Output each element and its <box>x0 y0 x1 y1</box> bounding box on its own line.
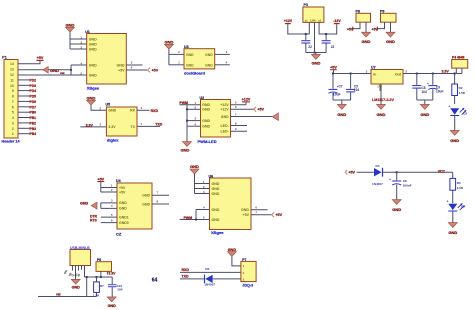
op-amp U4 <box>116 179 152 237</box>
svg-text:GND: GND <box>66 22 75 27</box>
svg-text:RXD: RXD <box>151 109 159 113</box>
LED D4 <box>447 200 466 223</box>
svg-text:PWM: PWM <box>184 216 193 220</box>
svg-text:PWM-LED: PWM-LED <box>198 139 217 144</box>
capacitor C6 <box>389 172 412 199</box>
node TXD at U5 <box>137 122 163 126</box>
svg-text:x2: x2 <box>318 18 322 22</box>
svg-text:3.3V: 3.3V <box>108 125 116 129</box>
svg-text:+: + <box>389 178 391 182</box>
ground above P7 <box>227 248 241 266</box>
svg-text:GND: GND <box>202 103 210 107</box>
svg-text:+5V: +5V <box>152 68 159 72</box>
svg-text:10uF: 10uF <box>333 93 341 97</box>
wire U6 right GND <box>251 205 268 209</box>
capacitor C10 <box>108 277 123 297</box>
svg-text:+5V: +5V <box>119 190 126 194</box>
svg-text:+5V: +5V <box>372 27 379 31</box>
svg-text:-12V: -12V <box>333 19 341 23</box>
wire junction vertical <box>70 65 72 75</box>
USB connector J1 <box>70 246 91 266</box>
power -12V at crystal right <box>319 19 341 34</box>
power +12V at crystal left <box>284 19 309 34</box>
svg-text:D5: D5 <box>376 164 380 168</box>
svg-text:14: 14 <box>10 62 14 66</box>
diode D6 <box>204 267 215 286</box>
power +5V at U1 right <box>126 66 158 73</box>
svg-text:+5V: +5V <box>37 56 44 60</box>
svg-text:P9: P9 <box>380 9 384 13</box>
svg-text:+5V: +5V <box>118 68 125 72</box>
node RXD bottom <box>180 268 241 272</box>
svg-text:x1: x1 <box>305 18 309 22</box>
svg-text:XBgee: XBgee <box>87 85 100 90</box>
svg-text:GND1: GND1 <box>119 215 129 219</box>
svg-text:PB2: PB2 <box>30 121 37 125</box>
svg-text:3.3V: 3.3V <box>108 272 116 276</box>
ground arrow at U4 left <box>80 199 117 209</box>
svg-text:GND: GND <box>362 39 371 44</box>
ground below output caps <box>417 100 433 117</box>
svg-text:PB1: PB1 <box>30 116 37 120</box>
capacitor C5 <box>346 74 359 101</box>
ground below U2 <box>181 142 192 153</box>
capacitor C2 <box>322 33 335 53</box>
svg-text:7: 7 <box>12 100 14 104</box>
svg-text:22: 22 <box>308 45 312 49</box>
svg-text:5: 5 <box>12 111 14 115</box>
svg-text:D6: D6 <box>205 267 209 271</box>
ground symbol above U5 <box>87 95 107 110</box>
svg-text:GND: GND <box>89 63 97 67</box>
svg-text:GND: GND <box>392 207 401 212</box>
svg-text:D4: D4 <box>461 204 465 208</box>
svg-text:+12V: +12V <box>242 98 251 102</box>
wire U1 GND pin upper <box>71 64 87 66</box>
svg-text:1N4007: 1N4007 <box>204 282 215 286</box>
wire vel branch vertical <box>86 277 88 297</box>
svg-text:+5V: +5V <box>243 213 250 217</box>
svg-text:GND: GND <box>87 95 96 100</box>
svg-text:XBgee: XBgee <box>211 230 224 235</box>
svg-text:P1: P1 <box>2 56 6 60</box>
ground below C10 <box>107 297 116 308</box>
ground symbol above U1 <box>66 22 75 49</box>
svg-text:PB0: PB0 <box>30 111 37 115</box>
svg-text:3: 3 <box>12 121 14 125</box>
power +5V at regulator input <box>330 66 337 74</box>
svg-text:GND: GND <box>241 208 249 212</box>
svg-text:1.5K: 1.5K <box>459 91 466 95</box>
power +5V at P8 <box>347 22 360 31</box>
svg-text:VCC: VCC <box>438 169 446 173</box>
regulator U7 <box>366 65 408 102</box>
svg-text:8: 8 <box>12 95 14 99</box>
svg-text:GND: GND <box>377 112 386 117</box>
svg-text:104: 104 <box>117 288 122 292</box>
svg-text:GND: GND <box>89 73 97 77</box>
op-amp U3 <box>184 45 215 76</box>
svg-text:GND: GND <box>108 304 117 308</box>
svg-text:12: 12 <box>10 73 14 77</box>
svg-text:PD4: PD4 <box>30 89 37 93</box>
svg-text:+5V: +5V <box>119 186 126 190</box>
svg-text:R2: R2 <box>459 86 463 90</box>
svg-text:GND: GND <box>221 115 229 119</box>
svg-text:3.3V: 3.3V <box>86 123 94 127</box>
svg-text:CZ: CZ <box>116 232 122 237</box>
svg-text:Header 14: Header 14 <box>2 140 21 144</box>
svg-text:+5V: +5V <box>257 108 264 112</box>
capacitor C7 <box>329 74 343 101</box>
resistor R2 <box>452 74 466 105</box>
svg-text:GND: GND <box>117 63 125 67</box>
svg-text:LM1117-3.3V: LM1117-3.3V <box>372 98 394 102</box>
svg-text:U7: U7 <box>371 65 376 69</box>
svg-text:2: 2 <box>12 127 14 131</box>
svg-text:+5V: +5V <box>330 66 337 70</box>
svg-text:GND: GND <box>386 39 395 44</box>
op-amp U2 <box>198 96 231 144</box>
wire input rail <box>332 73 371 75</box>
svg-text:+12V: +12V <box>284 19 293 23</box>
svg-text:GND: GND <box>190 164 199 169</box>
diode D5 <box>372 164 453 186</box>
wire output rail <box>403 73 462 75</box>
svg-text:GND: GND <box>89 37 97 41</box>
svg-text:R3: R3 <box>457 181 461 185</box>
svg-text:GND0: GND0 <box>119 221 129 225</box>
svg-text:RTS: RTS <box>90 218 98 222</box>
wire regulator GND pin <box>380 84 382 104</box>
svg-text:GND: GND <box>448 230 457 235</box>
svg-text:6: 6 <box>12 105 14 109</box>
svg-text:dockBoard: dockBoard <box>184 70 205 75</box>
svg-text:GND: GND <box>228 248 237 252</box>
svg-text:D2: D2 <box>463 112 467 116</box>
svg-text:PD3: PD3 <box>30 84 37 88</box>
wire U6 top GND pins <box>195 180 210 194</box>
power +12V at U2 right <box>231 98 251 105</box>
svg-text:PD2: PD2 <box>30 78 37 82</box>
svg-text:GND: GND <box>202 119 210 123</box>
node PWM wire into U2 <box>179 101 200 105</box>
svg-text:9: 9 <box>12 89 14 93</box>
resistor R3 <box>450 172 464 203</box>
svg-text:104: 104 <box>354 88 360 92</box>
svg-text:GND: GND <box>205 63 213 67</box>
svg-text:TXD: TXD <box>182 274 189 278</box>
power +5V at P1 pin14 <box>18 56 44 64</box>
wire U2 LED- pins <box>231 121 248 131</box>
svg-text:GND: GND <box>119 207 127 211</box>
svg-text:12M: 12M <box>310 18 316 22</box>
ground below crystal caps <box>306 52 326 66</box>
svg-text:1: 1 <box>12 132 14 136</box>
svg-text:4: 4 <box>12 116 14 120</box>
svg-text:PWM: PWM <box>179 101 188 105</box>
node DTR RTS at U4 left <box>90 213 117 223</box>
ground arrow at U2 GND pin <box>231 112 279 120</box>
USB pin stubs <box>63 266 85 279</box>
svg-text:PB3: PB3 <box>30 127 37 131</box>
svg-text:PB4: PB4 <box>30 132 37 136</box>
svg-text:GND: GND <box>164 39 173 44</box>
resistor R7 <box>93 277 104 297</box>
svg-text:GND: GND <box>202 108 210 112</box>
connector P8 <box>356 9 371 22</box>
power +5V at U6 right <box>251 210 283 217</box>
node TXD bottom <box>180 274 241 279</box>
wire P1 pin12 to U1 <box>18 74 87 76</box>
wire U2 left pins <box>186 101 201 142</box>
power +5V at U4 left <box>97 177 117 192</box>
power +5V mid right <box>345 170 374 175</box>
svg-text:P4 4848: P4 4848 <box>452 55 464 59</box>
ground below input caps <box>333 100 351 117</box>
wire U3 right pins <box>215 50 230 65</box>
ground arrow GND <box>43 67 48 74</box>
LED D2 <box>449 104 468 130</box>
svg-text:1.5K: 1.5K <box>457 186 464 190</box>
wire vel bottom <box>38 293 97 297</box>
svg-text:GND: GND <box>142 202 150 206</box>
svg-text:GND: GND <box>212 182 220 186</box>
power +5V at P9 <box>372 22 385 31</box>
svg-text:104: 104 <box>422 90 428 94</box>
ground symbol above U3 <box>164 39 173 64</box>
svg-text:11: 11 <box>10 78 14 82</box>
node RXD at U5 <box>137 106 158 113</box>
svg-text:PD6: PD6 <box>30 100 37 104</box>
svg-text:GND: GND <box>420 112 429 117</box>
wire U4 right pins <box>152 191 169 204</box>
crystal P3 <box>303 3 324 22</box>
svg-text:10: 10 <box>10 84 14 88</box>
svg-text:+5V: +5V <box>97 177 104 181</box>
svg-text:GND: GND <box>72 285 81 289</box>
svg-text:RXD: RXD <box>182 268 190 272</box>
svg-text:GND: GND <box>119 201 127 205</box>
svg-text:JDQ-3: JDQ-3 <box>242 284 253 288</box>
svg-text:digiex: digiex <box>107 137 119 142</box>
svg-text:GND: GND <box>337 112 346 117</box>
svg-text:+5V: +5V <box>347 27 354 31</box>
svg-text:LED-: LED- <box>221 130 230 134</box>
svg-text:22: 22 <box>331 45 335 49</box>
svg-text:13: 13 <box>10 68 14 72</box>
ground symbol above U6 <box>190 164 199 194</box>
svg-text:+5V: +5V <box>348 171 355 175</box>
capacitor C8 <box>412 74 427 101</box>
op-amp U6 <box>209 174 252 234</box>
ground below C6 <box>392 200 401 213</box>
svg-text:GND: GND <box>186 53 194 57</box>
svg-text:TXD: TXD <box>155 122 162 126</box>
svg-text:PD5: PD5 <box>30 95 37 99</box>
svg-text:10uF: 10uF <box>436 90 443 94</box>
svg-text:RX: RX <box>130 109 136 113</box>
connector P9 <box>380 9 396 22</box>
connector P1 <box>2 56 21 144</box>
power +5V at U2 right <box>231 105 265 112</box>
svg-text:GND: GND <box>212 218 220 222</box>
wire U1 top GND pins <box>70 35 87 75</box>
wire P1 pin13 to GND arrow <box>18 69 71 71</box>
svg-text:GND: GND <box>181 147 190 152</box>
ground below USB <box>71 279 80 289</box>
svg-text:R7: R7 <box>100 284 104 288</box>
svg-text:U5: U5 <box>106 103 111 107</box>
svg-text:vel: vel <box>56 293 61 297</box>
svg-text:GND: GND <box>311 60 320 65</box>
svg-text:GND: GND <box>186 63 194 67</box>
ground below P8 <box>362 22 371 44</box>
svg-text:Out: Out <box>395 72 402 76</box>
node PWM wire into U6 <box>180 205 210 220</box>
svg-text:LED-: LED- <box>221 124 230 128</box>
connector P6 <box>96 258 112 277</box>
svg-text:GND: GND <box>212 187 220 191</box>
op-amp U1 <box>85 30 126 91</box>
ground below regulator <box>377 104 386 117</box>
svg-text:100uF: 100uF <box>403 183 412 187</box>
ground below P9 <box>386 22 395 44</box>
op-amp U5 <box>106 103 138 143</box>
capacitor C1 <box>301 33 312 53</box>
svg-text:GND: GND <box>205 53 213 57</box>
ground below D4 <box>448 223 457 235</box>
svg-text:P8: P8 <box>356 9 360 13</box>
svg-text:+: + <box>427 82 429 86</box>
svg-text:GND: GND <box>80 201 89 205</box>
svg-text:P6: P6 <box>97 258 101 262</box>
svg-text:GND: GND <box>212 192 220 196</box>
svg-text:+: + <box>447 200 449 204</box>
connector P4 top right <box>452 55 468 73</box>
wire U1 right GND <box>126 61 142 65</box>
svg-text:GND: GND <box>50 68 59 73</box>
svg-text:1N4007: 1N4007 <box>372 182 383 186</box>
svg-text:C7: C7 <box>339 84 343 88</box>
svg-text:+12V: +12V <box>220 108 229 112</box>
svg-text:64: 64 <box>152 278 158 284</box>
svg-text:GND: GND <box>142 194 150 198</box>
svg-text:+: + <box>449 104 451 108</box>
svg-text:GND: GND <box>202 125 210 129</box>
ground below D2 <box>450 130 459 143</box>
svg-text:+12V: +12V <box>220 103 229 107</box>
svg-text:In: In <box>373 72 376 76</box>
svg-text:TX: TX <box>131 125 136 129</box>
wire USB to P6 and C10 <box>85 276 113 278</box>
connector P7 <box>241 258 256 288</box>
wire crystal center pin <box>314 22 316 52</box>
svg-text:PD7: PD7 <box>30 105 37 109</box>
svg-text:GND: GND <box>108 109 116 113</box>
svg-text:GND: GND <box>89 42 97 46</box>
svg-text:3.3V: 3.3V <box>442 70 450 74</box>
svg-text:GND: GND <box>450 138 459 143</box>
node 3.3V wire into U5 <box>80 107 106 128</box>
svg-text:GND: GND <box>89 47 97 51</box>
svg-text:GND: GND <box>212 208 220 212</box>
node PB labels P1 pins 11..1 <box>18 78 36 136</box>
svg-text:+5V: +5V <box>275 213 282 217</box>
wire U3 left pins <box>169 50 184 65</box>
capacitor C9 <box>427 74 443 101</box>
svg-text:vel: vel <box>60 71 64 75</box>
